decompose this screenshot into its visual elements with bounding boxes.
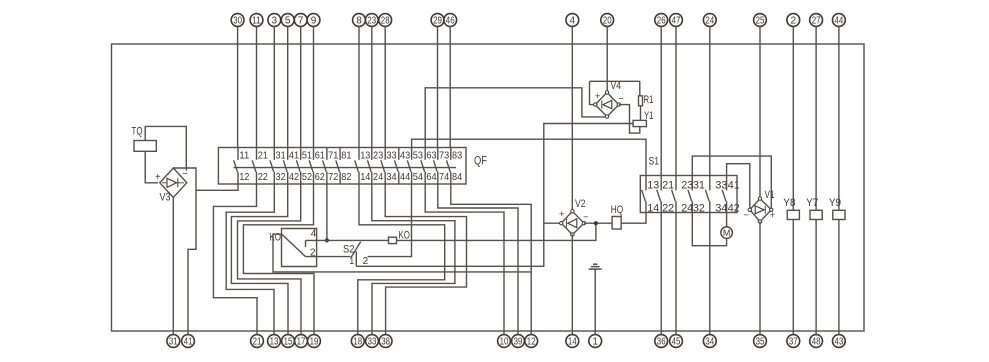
wire terminal 11 to QF [256,26,258,147]
wire terminal 29 to QF [437,26,439,147]
ground symbol [593,263,597,265]
motor M [721,227,733,239]
svg-text:2: 2 [363,256,369,267]
svg-text:8: 8 [356,16,362,27]
junction dot V2 node [594,221,598,225]
wire S1 41 to V1 - [727,164,750,208]
svg-text:1: 1 [349,256,354,266]
svg-text:44: 44 [400,171,410,183]
svg-text:Y1: Y1 [644,110,654,122]
QF contact 73/74 [437,148,439,160]
svg-text:14: 14 [647,203,659,215]
svg-text:20: 20 [603,16,612,27]
resistor R1 [639,81,641,95]
wire QF 52 to terminal 17 [238,184,302,335]
wire QF 74 to terminal 39 [438,184,518,335]
svg-text:64: 64 [426,171,436,183]
wire S1 24 to terminal 45 [675,213,677,335]
wire KO common to terminal 12 net [273,234,531,272]
terminal 7 (top) [294,14,307,27]
contact block KO [282,229,317,267]
terminal 39 (bottom) [512,335,525,348]
terminal 13 (bottom) [268,335,281,348]
svg-text:30: 30 [233,16,242,27]
svg-text:7: 7 [298,16,304,27]
svg-text:+: + [559,209,565,220]
terminal 34 (bottom) [703,335,716,348]
terminal 23 (top) [365,14,378,27]
svg-text:13: 13 [647,179,659,191]
svg-text:36: 36 [657,337,666,348]
terminal 33 (bottom) [366,335,379,348]
svg-text:34: 34 [386,171,396,183]
svg-text:18: 18 [353,337,362,348]
svg-text:V3: V3 [160,192,171,204]
svg-text:+: + [770,210,776,221]
wire terminal 25 to V1 [759,26,761,198]
svg-text:10: 10 [500,337,509,348]
wire terminal 26 to S1 21 [660,26,662,175]
outer border frame [112,44,865,331]
svg-text:81: 81 [341,150,351,162]
svg-text:Y9: Y9 [829,197,841,209]
svg-text:51: 51 [302,150,312,162]
wire TQ top loop to V3 [145,126,186,170]
wire S2 pin 2 to QF 54 [368,184,412,257]
wire S1 31 to V1 + [692,156,771,208]
svg-text:12: 12 [527,337,536,348]
svg-text:72: 72 [328,171,338,183]
wire TQ bottom to V3 + [145,151,158,183]
svg-text:47: 47 [672,16,681,27]
QF contact 23/24 [371,148,373,160]
svg-text:Y8: Y8 [783,197,795,209]
coil TQ [134,141,156,152]
wire V3 to terminal 31 [172,198,174,335]
svg-text:28: 28 [381,16,390,27]
wire QF 24 to terminal 33 [372,184,455,335]
wire V3 output bar [173,168,196,335]
terminal 14 (bottom) [566,335,579,348]
svg-text:12: 12 [239,171,249,183]
wire KO coil to V2 node [397,223,596,240]
svg-text:83: 83 [452,150,462,162]
svg-text:74: 74 [439,171,449,183]
svg-text:25: 25 [756,16,765,27]
svg-text:24: 24 [681,203,693,215]
svg-text:63: 63 [426,150,436,162]
lamp HQ [612,217,621,230]
terminal 44 (top) [833,14,846,27]
wire KO contact 4 to coil [317,239,389,241]
terminal 36 (bottom) [655,335,668,348]
QF contact 41/42 [287,148,289,160]
svg-text:15: 15 [284,337,293,348]
terminal 31 (bottom) [167,335,180,348]
rectifier V1 [750,199,772,222]
terminal 2 (top) [787,14,800,27]
terminal 28 (top) [379,14,392,27]
svg-text:41: 41 [184,337,193,348]
svg-text:26: 26 [657,16,666,27]
wire terminal 4 to V2 [571,26,573,211]
terminal 3 (top) [268,14,281,27]
terminal 21 (bottom) [251,335,264,348]
QF contact 61/62 [313,148,315,160]
svg-text:43: 43 [835,337,844,348]
terminal 27 (top) [810,14,823,27]
wire QF 53 to S1 13 [412,139,646,175]
wire QF 42 to terminal 15 [231,184,288,335]
wire V2 to HQ [584,222,612,224]
svg-text:V1: V1 [765,189,775,201]
terminal 41 (bottom) [182,335,195,348]
svg-text:84: 84 [452,171,462,183]
wire QF 84 to terminal 12 [451,184,531,335]
svg-text:33: 33 [715,179,727,191]
S1 contact 21/22 [660,176,662,191]
svg-text:9: 9 [311,16,317,27]
svg-text:21: 21 [253,337,262,348]
svg-text:24: 24 [373,171,383,183]
svg-text:23: 23 [681,179,693,191]
terminal 1 (bottom) [589,335,602,348]
wire V4 - to Y1 bottom [619,105,640,134]
svg-text:−: − [744,210,750,221]
coil KO [389,237,397,243]
S1 contact 13/14 [645,176,647,191]
svg-text:22: 22 [258,171,268,183]
svg-text:19: 19 [310,337,319,348]
wire V1 to terminal 35 [759,222,761,335]
wire terminal 24 to S1 33 [709,26,711,175]
svg-text:62: 62 [315,171,325,183]
svg-text:27: 27 [812,16,821,27]
S1 contact 23/24 [675,176,677,191]
svg-text:+: + [155,172,161,183]
svg-text:71: 71 [328,150,338,162]
QF contact 43/44 [398,148,400,160]
switch block S1 outline [640,176,737,213]
terminal 15 (bottom) [282,335,295,348]
svg-text:46: 46 [446,16,455,27]
svg-text:13: 13 [270,337,279,348]
wire terminal 7 to QF [300,26,302,147]
terminal 17 (bottom) [295,335,308,348]
svg-text:34: 34 [705,337,714,348]
wire terminal 5 to QF [287,26,289,147]
terminal 46 (top) [444,14,457,27]
svg-text:2: 2 [791,16,797,27]
QF contact 13/14 [358,148,360,160]
wire S1 32 to motor [692,213,726,246]
svg-text:2: 2 [310,247,316,258]
terminal 12 (bottom) [525,335,538,348]
svg-text:17: 17 [297,337,306,348]
terminal 35 (bottom) [754,335,767,348]
wire S1 22 to terminal 36 [660,213,662,335]
svg-text:29: 29 [433,16,442,27]
svg-text:41: 41 [728,179,740,191]
wire V2 + branch [544,222,562,224]
wire ground to terminal 1 [594,269,596,335]
svg-text:32: 32 [693,203,705,215]
terminal 29 (top) [431,14,444,27]
wire QF 62 to terminal 19 [243,184,314,335]
svg-text:Y7: Y7 [806,197,818,209]
terminal 9 (top) [307,14,320,27]
wire terminal 28 to QF [384,26,386,147]
S1 contact 41/42 [726,176,728,191]
wire QF 34 to terminal 38 [385,184,466,335]
svg-text:21: 21 [662,179,674,191]
svg-text:5: 5 [285,16,291,27]
svg-text:4: 4 [570,16,576,27]
QF contact 63/64 [424,148,426,160]
svg-text:S1: S1 [649,156,660,168]
terminal 10 (bottom) [498,335,511,348]
wire HQ to S1 14 [621,213,646,224]
S1 contact 31/32 [691,176,693,191]
svg-text:13: 13 [360,150,370,162]
svg-text:41: 41 [289,150,299,162]
terminal 25 (top) [754,14,767,27]
svg-text:21: 21 [258,150,268,162]
terminal 24 (top) [703,14,716,27]
QF linkage bar [234,167,457,169]
rectifier V4 [595,92,619,116]
svg-text:42: 42 [728,203,740,215]
QF contact 21/22 [256,148,258,160]
svg-text:22: 22 [662,203,674,215]
terminal 11 (top) [250,14,263,27]
wire terminal 20 to V4 [606,26,608,92]
svg-text:14: 14 [360,171,370,183]
svg-text:23: 23 [367,16,376,27]
svg-text:V4: V4 [611,80,622,92]
terminal 8 (top) [353,14,366,27]
QF contact 83/84 [450,148,452,160]
svg-text:43: 43 [400,150,410,162]
svg-text:31: 31 [276,150,286,162]
rectifier V2 [561,211,584,234]
svg-text:−: − [618,94,624,105]
wire QF 32 to terminal 13 [226,184,274,335]
svg-text:S2: S2 [343,244,355,256]
rectifier V3 [160,168,187,198]
wire V4 AC loop [590,81,640,104]
svg-text:1: 1 [592,337,598,348]
wire QF 14 to terminal 18 [358,184,445,335]
svg-text:61: 61 [315,150,325,162]
wire QF 64 to terminal 10 [425,184,504,335]
svg-text:+: + [595,91,601,102]
svg-text:3: 3 [272,16,278,27]
svg-text:11: 11 [252,16,261,27]
svg-text:39: 39 [514,337,523,348]
relay Y1 [633,120,646,126]
svg-text:V2: V2 [575,198,586,210]
svg-text:52: 52 [302,171,312,183]
terminal 38 (bottom) [379,335,392,348]
svg-text:14: 14 [568,337,577,348]
svg-text:38: 38 [381,337,390,348]
svg-text:73: 73 [439,150,449,162]
svg-text:−: − [583,212,589,223]
wire terminal 8 to QF [358,26,360,147]
wire QF 72 to KO node [326,184,328,240]
QF contact 53/54 [411,148,413,160]
terminal 45 (bottom) [670,335,683,348]
switch S2 [355,252,357,267]
wire terminal 46 to QF [449,26,451,147]
svg-text:48: 48 [812,337,821,348]
svg-text:33: 33 [386,150,396,162]
terminal 5 (top) [281,14,294,27]
wire terminal 9 to QF [313,26,315,147]
relay Y8 [792,26,794,210]
relay Y7 [815,26,817,210]
QF contact 81/82 [339,148,341,160]
wire terminal 23 to QF [371,26,373,147]
svg-text:11: 11 [239,150,249,162]
svg-text:45: 45 [672,337,681,348]
svg-text:−: − [182,169,188,180]
relay Y9 [838,26,840,210]
svg-text:24: 24 [705,16,714,27]
svg-text:R1: R1 [644,94,654,106]
wire terminal 30 to QF [237,26,239,147]
svg-text:4: 4 [311,228,317,239]
svg-text:34: 34 [715,203,727,215]
svg-text:53: 53 [413,150,423,162]
QF contact 11/12 [237,148,239,160]
junction dot KO node [325,238,329,242]
wire QF 63 to V4 bottom [425,88,605,148]
svg-text:31: 31 [169,337,178,348]
svg-text:31: 31 [693,179,705,191]
svg-text:HQ: HQ [611,204,624,216]
QF contact 33/34 [384,148,386,160]
terminal 26 (top) [655,14,668,27]
S1 contact 33/34 [709,176,711,191]
svg-text:82: 82 [341,171,351,183]
QF contact 31/32 [273,148,275,160]
QF contact 51/52 [300,148,302,160]
wire V2 to terminal 14 [571,235,573,335]
wire terminal 3 to QF [273,26,275,147]
wire Y1 net riser [356,124,633,267]
terminal 43 (bottom) [833,335,846,348]
terminal 20 (top) [601,14,614,27]
terminal 37 (bottom) [787,335,800,348]
terminal 48 (bottom) [810,335,823,348]
terminal 47 (top) [670,14,683,27]
terminal 19 (bottom) [308,335,321,348]
svg-text:TQ: TQ [132,126,143,138]
svg-text:42: 42 [289,171,299,183]
terminal 18 (bottom) [351,335,364,348]
wire QF 22 to terminal 21 [213,184,257,335]
svg-text:23: 23 [373,150,383,162]
terminal 4 (top) [566,14,579,27]
svg-text:QF: QF [474,156,487,168]
breaker QF outline [218,148,466,185]
svg-text:37: 37 [789,337,798,348]
QF contact 71/72 [326,148,328,160]
svg-text:44: 44 [835,16,844,27]
svg-text:32: 32 [276,171,286,183]
svg-text:54: 54 [413,171,423,183]
svg-text:M: M [723,228,731,238]
svg-text:33: 33 [368,337,377,348]
terminal 30 (top) [231,14,244,27]
wire S1 42 to motor [726,213,728,228]
svg-text:35: 35 [756,337,765,348]
svg-text:KO: KO [270,232,282,244]
wire S1 34 to terminal 34 [709,213,711,335]
wire V3 to QF pin 12 [196,184,238,190]
wire terminal 47 to S1 23 [675,26,677,175]
